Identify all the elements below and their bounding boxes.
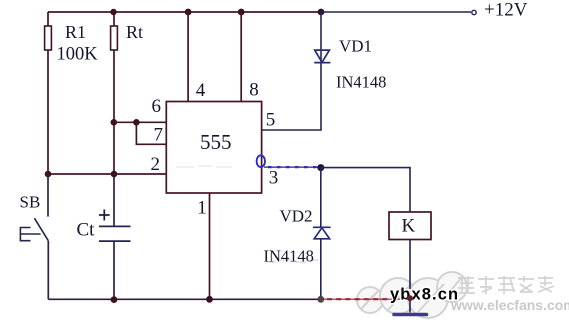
node: junction VD2 bottom <box>317 296 324 303</box>
svg-text:100K: 100K <box>57 45 99 65</box>
svg-text:5: 5 <box>266 110 276 131</box>
watermark faint fragment above bottom rail <box>266 260 318 262</box>
svg-text:6: 6 <box>152 96 162 117</box>
resistor Rt <box>113 12 115 174</box>
wire: pin 3 blue dash overlay <box>268 166 318 168</box>
svg-text:3: 3 <box>269 167 279 188</box>
wire: pin 4 <box>187 12 189 102</box>
svg-text:VD2: VD2 <box>280 207 313 226</box>
node: pin 3 output bubble <box>257 155 265 167</box>
watermark chinese text <box>458 276 554 294</box>
wire: pin 3 <box>264 166 318 168</box>
wire: pin3 junction to relay K <box>321 168 410 212</box>
svg-text:+12V: +12V <box>484 0 528 21</box>
svg-text:www.elecfans.com: www.elecfans.com <box>450 297 569 313</box>
wire: Ct to ground rail <box>113 241 115 299</box>
node: junction pin6 at Rt <box>111 119 118 126</box>
svg-text:K: K <box>402 216 416 237</box>
svg-text:4: 4 <box>196 80 206 101</box>
node: junction at K line bottom <box>407 295 413 301</box>
svg-text:Ct: Ct <box>77 220 96 241</box>
op-amp/timer U1 555 body <box>166 102 261 194</box>
svg-text:2: 2 <box>151 154 161 175</box>
wire: K to ground <box>409 240 411 313</box>
wire: pin 7 <box>136 122 166 144</box>
svg-text:VD1: VD1 <box>339 36 372 55</box>
wire: +12V rail (maroon section) <box>48 11 321 13</box>
watermark logo circles <box>357 272 467 318</box>
svg-text:1: 1 <box>197 197 207 218</box>
watermark faint fragment inside 555 <box>176 166 232 167</box>
wire: ground rail bottom <box>48 298 321 300</box>
node: junction pin1 bottom <box>206 296 213 303</box>
node: junction pin2 at Rt <box>111 171 118 178</box>
svg-text:Rt: Rt <box>126 22 143 42</box>
svg-text:ybx8.cn: ybx8.cn <box>390 286 459 304</box>
node: +12V open terminal <box>472 10 476 14</box>
wire: +12V rail (navy section to terminal) <box>321 11 471 13</box>
wire: pin 5 to VD1 <box>262 12 321 130</box>
svg-text:8: 8 <box>249 80 258 101</box>
node: junction pin3 <box>317 164 324 171</box>
node: junction pin8 top <box>238 9 245 16</box>
node: junction pin7 branch <box>133 119 140 126</box>
resistor R1 <box>47 12 49 174</box>
diode VD2 <box>320 168 322 227</box>
wire: bottom dashed red <box>327 298 407 300</box>
wire: pin 2 <box>48 173 166 175</box>
svg-text:IN4148: IN4148 <box>264 246 314 265</box>
ground bar <box>394 313 427 317</box>
svg-text:555: 555 <box>200 130 232 154</box>
svg-text:7: 7 <box>154 125 164 146</box>
svg-text:SB: SB <box>20 193 41 212</box>
wire: pin 8 <box>240 12 242 102</box>
diode VD1 <box>314 50 330 63</box>
relay K box <box>389 212 431 240</box>
capacitor Ct <box>99 226 131 241</box>
node: junction pin2 at R1 <box>45 171 52 178</box>
wire: pin 1 <box>209 193 211 299</box>
wire: bottom dashed red underlay <box>324 298 407 300</box>
wire: pin 6 <box>114 121 166 123</box>
switch SB <box>47 174 49 217</box>
polarity + of Ct <box>99 210 110 221</box>
svg-text:IN4148: IN4148 <box>336 73 386 92</box>
node: junction Rt top <box>110 9 116 15</box>
svg-text:R1: R1 <box>65 22 86 42</box>
node: junction pin4 top <box>185 9 192 16</box>
node: junction VD1 top <box>318 9 325 16</box>
node: junction Ct bottom <box>111 296 118 303</box>
